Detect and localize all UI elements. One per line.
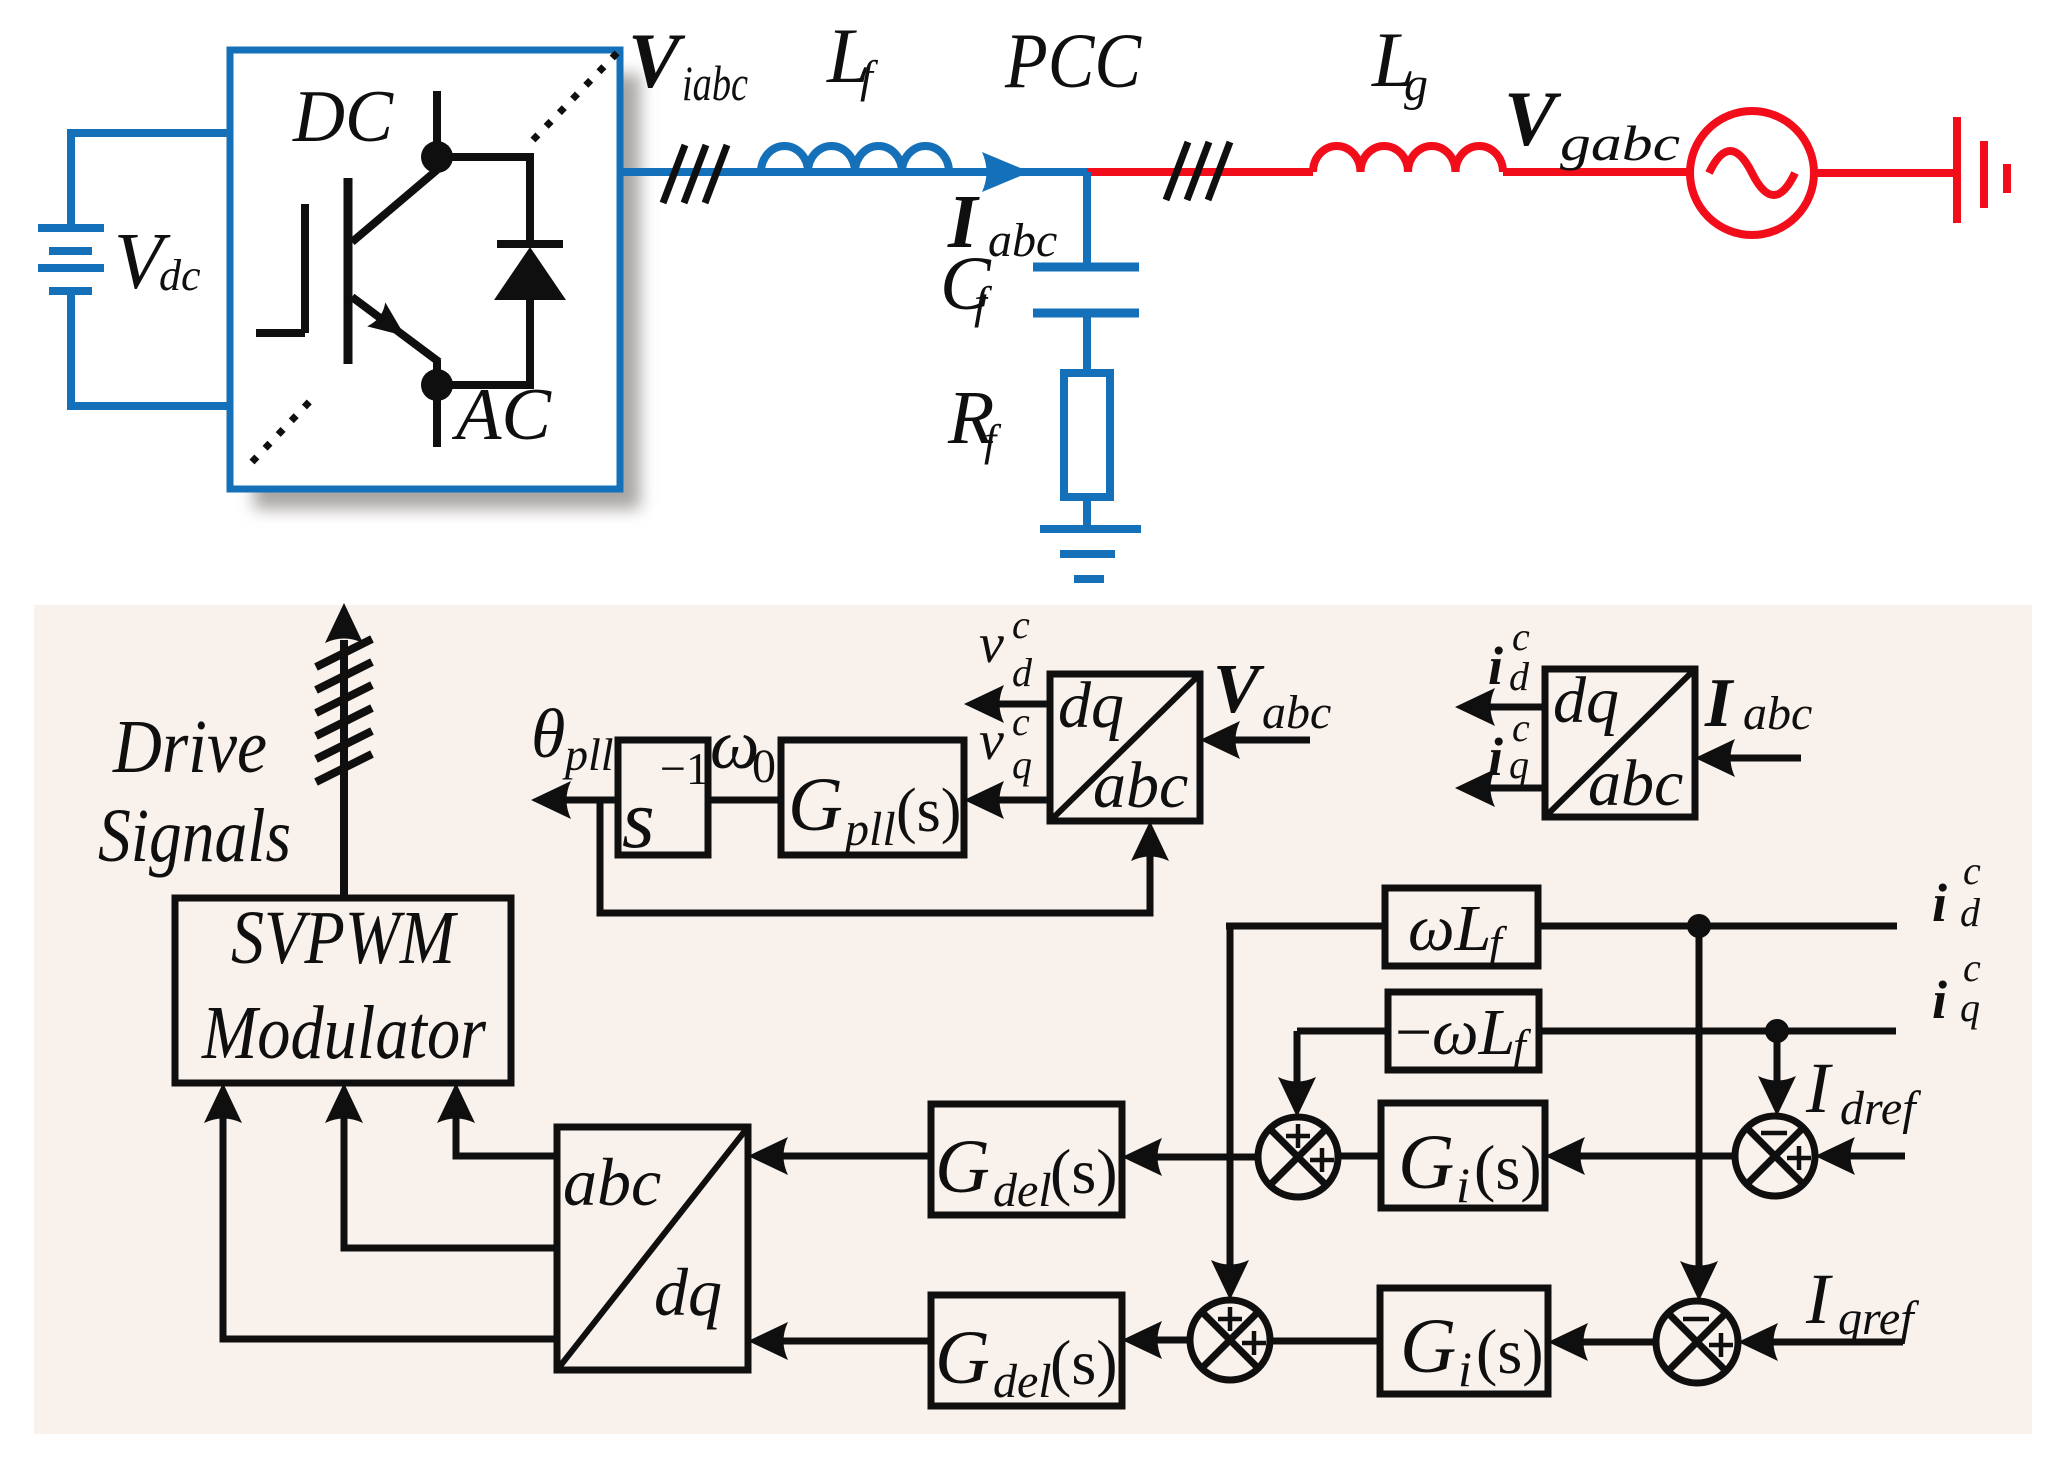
Iabc arrowhead (1695, 739, 1735, 777)
ground (filter) (1040, 529, 1141, 579)
svg-text:dc: dc (159, 251, 201, 300)
svg-text:ωL: ωL (1408, 892, 1491, 965)
Idref arrowhead (1815, 1137, 1855, 1175)
wire Iabc input (1706, 755, 1801, 762)
iq^c arrowhead (1455, 769, 1495, 807)
converter box shadow (254, 74, 640, 509)
svg-text:G: G (1398, 1118, 1454, 1205)
vq arrowhead (964, 781, 1004, 819)
arrow into Gi upper (1545, 1137, 1585, 1175)
svg-text:q: q (1509, 742, 1529, 787)
wire Gi lower to LL junction (1270, 1338, 1380, 1345)
arrow c into SVPWM (204, 1083, 242, 1123)
Vabc arrowhead (1200, 721, 1240, 759)
drive signals arrowhead (325, 603, 363, 643)
svg-text:del: del (993, 1355, 1052, 1408)
svg-text:i: i (1932, 873, 1947, 933)
dashed corner bottom-left (252, 398, 313, 462)
svg-text:abc: abc (1093, 749, 1188, 822)
svg-text:G: G (788, 763, 843, 847)
wire id left drop (1227, 926, 1234, 1291)
wire iq^c output (1466, 785, 1545, 792)
wire LL to Gdel lower (1133, 1337, 1190, 1344)
svg-text:c: c (1963, 848, 1981, 893)
svg-text:i: i (1456, 1157, 1470, 1213)
wire PLL feedback (600, 800, 1150, 913)
svg-text:V: V (1213, 651, 1265, 728)
svg-text:θ: θ (531, 696, 565, 773)
transistor Q1 collector lead (352, 91, 437, 242)
wire: Vdc battery loop bottom (71, 291, 232, 406)
arrow into Gdel upper (1122, 1138, 1162, 1176)
inductor Lf (761, 146, 949, 172)
wire abc/dq output a (456, 1095, 557, 1156)
wire source to grid ground (1814, 169, 1953, 177)
svg-text:i: i (1488, 727, 1503, 787)
svg-text:V: V (1504, 75, 1562, 162)
summing junction UR (1735, 1116, 1815, 1196)
node: collector junction dot (421, 141, 453, 173)
svg-text:dq: dq (1553, 664, 1619, 737)
control panel background (34, 605, 2032, 1434)
svg-text:(s): (s) (1474, 1132, 1542, 1203)
vd arrowhead (964, 685, 1004, 723)
svg-text:abc: abc (1743, 687, 1812, 740)
wire Gi to UL junction (1338, 1153, 1381, 1160)
node: emitter junction dot (421, 369, 453, 401)
block Gpll(s) (781, 740, 964, 855)
arrow into UR junction (1758, 1076, 1796, 1116)
wire Lg to source (1503, 168, 1690, 176)
three-phase slashes (right) (1166, 142, 1230, 200)
svg-text:q: q (1960, 985, 1980, 1030)
block Gdel(s) lower (931, 1295, 1122, 1406)
summing junction UL (1258, 1117, 1338, 1197)
svg-text:(s): (s) (1050, 1136, 1118, 1207)
wire Cf to Rf (1083, 317, 1091, 373)
transistor Q1 emitter lead (352, 297, 439, 385)
summing junction LR (1656, 1301, 1738, 1383)
svg-text:c: c (1963, 945, 1981, 990)
wire id drop to q-row junction (1696, 926, 1703, 1292)
block Gi(s) lower (1380, 1288, 1548, 1394)
svg-text:I: I (1805, 1048, 1833, 1128)
arrow into LR junction (1680, 1261, 1718, 1301)
transistor Q1 body bar (344, 178, 353, 364)
diode D1 triangle (494, 247, 566, 300)
arrow into Gdel lower (1122, 1321, 1162, 1359)
node dot on iq line (1765, 1019, 1789, 1043)
wire: Vdc battery loop top (71, 133, 232, 228)
wire: PCC to grid (red) (1087, 168, 1313, 176)
wire from emitter dot down (433, 385, 441, 447)
svg-text:ωL: ωL (1432, 996, 1515, 1069)
wire abc/dq output b (344, 1095, 557, 1248)
ground (grid, rotated) (1957, 117, 2007, 223)
arrow into abc/dq upper (748, 1137, 788, 1175)
arrow a into SVPWM (437, 1083, 475, 1123)
wire iq drop to UR junction (1774, 1031, 1781, 1107)
theta_pll arrowhead (531, 781, 571, 819)
svg-text:gabc: gabc (1560, 115, 1680, 171)
wire UR to Gi (1556, 1153, 1735, 1160)
wire Idref input (1826, 1153, 1905, 1160)
wire: inverter output Viabc (620, 168, 1090, 176)
wire Vabc input (1211, 737, 1310, 744)
svg-text:−1: −1 (660, 743, 709, 794)
capacitor Cf (1033, 267, 1139, 313)
svg-text:c: c (1512, 614, 1530, 659)
block dq/abc (voltage) (1050, 674, 1200, 821)
svg-text:I: I (1704, 665, 1735, 742)
id^c arrowhead (1455, 688, 1495, 726)
svg-text:abc: abc (988, 214, 1057, 267)
dashed corner top-right (533, 52, 618, 140)
converter block (DC/AC) (230, 50, 620, 489)
svg-text:DC: DC (292, 76, 395, 158)
AC source Vgabc circle (1690, 111, 1814, 235)
drive signals phase slashes (316, 639, 372, 782)
wire: PCC down to filter (1083, 172, 1091, 263)
svg-text:−: − (1395, 996, 1432, 1069)
arrow into LL junction (1211, 1260, 1249, 1300)
svg-text:(s): (s) (896, 777, 961, 845)
wire iq left drop (1294, 1031, 1301, 1108)
svg-text:f: f (984, 416, 1002, 465)
block dq/abc (current) (1545, 669, 1695, 817)
transistor Q1 emitter arrow (367, 302, 414, 348)
wire: drive signals arrow (340, 640, 348, 898)
svg-text:pll: pll (562, 729, 614, 780)
inductor Lg (1313, 146, 1503, 172)
wire s^-1 to Gpll (708, 797, 781, 804)
wire Rf to ground (1083, 497, 1091, 528)
svg-text:d: d (1960, 890, 1981, 935)
wire id^c output (1466, 704, 1545, 711)
svg-text:(s): (s) (1476, 1316, 1544, 1387)
svg-text:i: i (1488, 636, 1503, 696)
svg-text:dq: dq (1058, 669, 1124, 742)
resistor Rf (1064, 373, 1110, 497)
svg-text:Signals: Signals (98, 794, 291, 878)
arrow into Gi lower (1548, 1323, 1588, 1361)
svg-text:I: I (1805, 1259, 1833, 1339)
wire Iqref input (1749, 1339, 1903, 1346)
svg-text:v: v (979, 613, 1004, 675)
summing junction LL (1190, 1300, 1270, 1380)
wire iq^c feedback line (1297, 1028, 1896, 1035)
svg-text:del: del (993, 1164, 1052, 1217)
wire LR to Gi lower (1559, 1339, 1656, 1346)
block SVPWM Modulator (175, 898, 511, 1083)
svg-text:G: G (935, 1125, 990, 1209)
svg-text:s: s (622, 773, 655, 866)
wire Gdel lower to abc/dq (759, 1338, 931, 1345)
svg-text:i: i (1932, 970, 1947, 1030)
wire to diode branch (437, 157, 530, 385)
svg-text:0: 0 (752, 740, 776, 793)
block Gi(s) upper (1381, 1103, 1545, 1208)
block wLf (1385, 888, 1538, 966)
wire abc/dq output c (223, 1095, 557, 1339)
arrow b into SVPWM (325, 1083, 363, 1123)
current arrow Iabc (982, 152, 1030, 192)
svg-text:abc: abc (1588, 747, 1683, 820)
svg-text:iabc: iabc (682, 55, 748, 111)
svg-text:Drive: Drive (112, 705, 267, 789)
svg-text:pll: pll (842, 803, 896, 856)
wire id^c feedback line (1226, 923, 1897, 930)
svg-text:SVPWM: SVPWM (231, 896, 458, 980)
PLL feedback arrowhead (1131, 821, 1169, 861)
block s^-1 (618, 740, 708, 855)
wire Gdel upper to abc/dq (759, 1153, 931, 1160)
svg-text:d: d (1509, 654, 1530, 699)
wire UL to Gdel upper (1133, 1154, 1258, 1161)
svg-text:V: V (628, 17, 686, 104)
svg-text:dref: dref (1840, 1082, 1921, 1135)
svg-text:abc: abc (563, 1144, 661, 1220)
block -wLf (1388, 992, 1539, 1070)
arrow into abc/dq lower (748, 1322, 788, 1360)
svg-text:PCC: PCC (1004, 17, 1142, 104)
AC source sine (1709, 151, 1795, 195)
wire theta_pll output (545, 797, 618, 804)
svg-text:f: f (860, 51, 879, 102)
block abc/dq (557, 1127, 748, 1370)
diode D1 cathode bar (497, 240, 563, 248)
svg-text:qref: qref (1838, 1292, 1919, 1345)
Iqref arrowhead (1738, 1323, 1778, 1361)
three-phase slashes (left) (663, 145, 727, 203)
svg-text:G: G (1400, 1302, 1456, 1389)
svg-text:Modulator: Modulator (201, 991, 486, 1075)
svg-text:G: G (935, 1316, 990, 1400)
svg-text:(s): (s) (1050, 1327, 1118, 1398)
svg-text:c: c (1012, 602, 1030, 647)
arrow into UL junction (1278, 1077, 1316, 1117)
svg-text:abc: abc (1262, 686, 1331, 739)
svg-text:dq: dq (654, 1254, 722, 1330)
node dot on id line (1687, 914, 1711, 938)
block Gdel(s) upper (931, 1104, 1122, 1215)
svg-text:g: g (1404, 58, 1428, 111)
svg-text:i: i (1458, 1341, 1472, 1397)
wire vd output (975, 701, 1050, 708)
transistor Q1 (IGBT) gate lead (256, 204, 305, 333)
wire vq into Gpll (975, 797, 1050, 804)
battery Vdc plates (38, 228, 104, 291)
svg-text:q: q (1012, 742, 1032, 787)
svg-text:d: d (1012, 650, 1033, 695)
